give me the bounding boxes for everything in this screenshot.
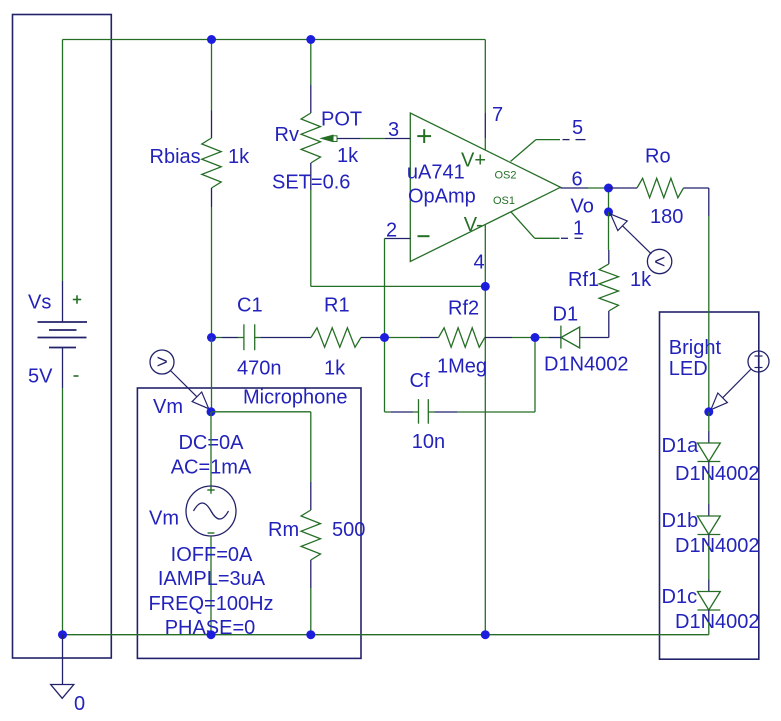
battery Vs bottom lead [62,348,64,389]
wire Rv top [310,40,312,86]
node top rail Rbias dot [207,35,216,44]
wire Cf left [385,338,419,413]
label FREQ=100Hz [148,593,273,615]
label Vs [28,292,51,314]
svg-text:3: 3 [388,119,399,141]
box Microphone [137,388,361,658]
label Rv value 1k [337,145,359,167]
wire Rf1 top [608,212,610,250]
node C1 left dot [207,333,216,342]
label uA741 [407,162,465,184]
svg-text:FREQ=100Hz: FREQ=100Hz [148,593,273,615]
label ground 0 [74,693,85,715]
current source Vm [186,486,236,536]
svg-text:Microphone: Microphone [243,387,348,409]
box Bright LED [660,312,759,659]
node Rv-pin4 dot [481,282,490,291]
label LED [669,358,708,380]
label D1c [662,586,698,608]
resistor Rf2 [385,328,536,347]
label Vm probe [153,396,183,418]
node R1 out dot [380,333,389,342]
label D1 value D1N4002 [544,354,629,376]
svg-text:D1a: D1a [662,435,700,457]
wire Vs bottom [62,388,64,635]
svg-text:0: 0 [74,693,85,715]
label pin 5 [572,117,583,139]
svg-text:5V: 5V [28,366,53,388]
label Ro [645,146,671,168]
svg-text:Vm: Vm [153,396,183,418]
node Rf2-D1 dot [531,333,540,342]
svg-text:1k: 1k [337,145,359,167]
node Vo dot top [604,184,613,193]
svg-text:Rv: Rv [275,124,299,146]
wire Vm source top [210,412,212,486]
battery Vs plates [38,322,88,348]
svg-text:OS2: OS2 [495,170,517,182]
label Vs plus [73,295,81,303]
label Rbias value 1k [228,146,250,168]
wire C1 left [212,337,244,339]
wire Cf right [428,338,535,413]
node bottom mic dot [207,630,216,639]
label C1 value 470n [237,358,282,380]
capacitor Cf [419,399,429,424]
label D1c value D1N4002 [675,611,760,633]
svg-text:2: 2 [386,220,397,242]
label Rf1 [568,269,599,291]
wire pin 7 [484,40,486,151]
svg-text:R1: R1 [324,295,350,317]
resistor Ro [609,178,709,197]
wire pin 2 [385,238,411,240]
svg-text:D1c: D1c [662,586,698,608]
wire mic input [211,338,213,413]
ground 0 [51,635,74,699]
label Vs value 5V [28,366,53,388]
resistor R1 [311,328,385,347]
svg-text:470n: 470n [237,358,282,380]
svg-text:V+: V+ [461,150,486,172]
potentiometer Rv [301,85,320,190]
label Rm [268,519,299,541]
svg-text:Rbias: Rbias [150,146,201,168]
svg-text:D1N4002: D1N4002 [544,354,629,376]
svg-text:1k: 1k [324,358,346,380]
diode D1c [698,546,721,622]
svg-text:>: > [157,352,168,373]
wire Vs top drop [62,40,64,282]
svg-text:POT: POT [321,109,362,131]
svg-text:Cf: Cf [410,370,430,392]
node top rail Rv dot [306,35,315,44]
label Ro value 180 [650,206,683,228]
svg-text:1: 1 [573,217,584,239]
label pin 7 [492,104,503,126]
svg-text:1Meg: 1Meg [437,355,487,377]
resistor Rm [301,412,320,635]
box Vs supply [13,15,112,659]
svg-text:IOFF=0A: IOFF=0A [171,544,253,566]
label pin 4 [474,252,485,274]
svg-text:D1N4002: D1N4002 [675,463,760,485]
label Rf1 value 1k [630,269,652,291]
label R1 value 1k [324,358,346,380]
svg-text:Vo: Vo [571,196,594,218]
resistor Rf1 [599,250,618,338]
svg-text:SET=0.6: SET=0.6 [272,172,350,194]
label AC=1mA [171,456,252,478]
label V+ [461,150,486,172]
svg-text:IAMPL=3uA: IAMPL=3uA [158,568,266,590]
probe current I [711,351,769,410]
svg-text:5: 5 [572,117,583,139]
svg-text:uA741: uA741 [407,162,465,184]
svg-text:D1N4002: D1N4002 [675,611,760,633]
label D1a [662,435,700,457]
svg-text:LED: LED [669,358,708,380]
label SET=0.6 [272,172,350,194]
svg-text:<: < [654,252,665,273]
svg-text:1k: 1k [228,146,250,168]
diode D1a [698,412,721,473]
svg-text:Rm: Rm [268,519,299,541]
label V- [464,214,483,236]
wire Rbias top [211,40,213,111]
svg-text:Rf1: Rf1 [568,269,599,291]
svg-text:10n: 10n [412,431,445,453]
label D1 [553,304,579,326]
svg-text:D1: D1 [553,304,579,326]
label Rbias [150,146,201,168]
svg-text:OS1: OS1 [493,195,515,207]
wire D1c to rail [708,622,710,635]
label IAMPL=3uA [158,568,266,590]
svg-text:D1b: D1b [662,510,699,532]
label Cf value 10n [412,431,445,453]
svg-text:Vm: Vm [149,508,179,530]
wire Rbias bottom [211,207,213,338]
svg-text:V-: V- [464,214,483,236]
wire C1-R1 [255,337,311,339]
svg-text:7: 7 [492,104,503,126]
label Vm source [149,508,179,530]
label OS1 [493,195,515,207]
label pin 6 [572,169,583,191]
wire pin2 to node [384,239,386,338]
label C1 [237,295,263,317]
op-amp U1 triangle [410,113,560,262]
pot Rv wiper arrow [321,135,337,141]
pin 5 stub [511,140,586,162]
label POT [321,109,362,131]
svg-text:OpAmp: OpAmp [408,185,476,207]
node bottom Rm dot [306,630,315,639]
wire top rail [63,39,486,41]
wire Rv bottom [311,190,486,286]
label OS2 [495,170,517,182]
node bottom Vs dot [58,630,67,639]
svg-text:Bright: Bright [669,337,722,359]
svg-text:6: 6 [572,169,583,191]
label Rf2 [448,298,479,320]
label DC=0A [178,432,244,454]
diode D1 [535,326,609,349]
resistor Rbias [202,111,221,208]
node bottom pin4 dot [481,630,490,639]
battery Vs top lead [62,281,64,322]
label Vo [571,196,594,218]
label pin 3 [388,119,399,141]
svg-text:D1N4002: D1N4002 [675,535,760,557]
label Microphone [243,387,348,409]
wire Vo node [608,188,610,212]
label OpAmp [408,185,476,207]
svg-text:180: 180 [650,206,683,228]
label D1b value D1N4002 [675,535,760,557]
svg-text:C1: C1 [237,295,263,317]
svg-text:4: 4 [474,252,485,274]
node mic top dot [207,407,216,416]
probe viewpoint Vo [611,214,672,274]
label Vs minus [74,375,79,377]
label R1 [324,295,350,317]
label Rv [275,124,299,146]
label Cf [410,370,430,392]
node LED top dot [704,407,713,416]
label Rf2 value 1Meg [437,355,487,377]
svg-text:Rf2: Rf2 [448,298,479,320]
svg-text:1k: 1k [630,269,652,291]
wire pin 4 [484,225,486,635]
pin 1 stub [511,212,582,238]
svg-text:Vs: Vs [28,292,51,314]
node Vo dot [604,207,613,216]
wire Vm source bottom [210,536,212,635]
probe viewpoint Vm [150,350,209,409]
wire bottom rail [63,634,709,636]
svg-text:500: 500 [332,519,365,541]
label PHASE=0 [165,617,256,639]
label pin 1 [573,217,584,239]
label pin 2 [386,220,397,242]
capacitor C1 [244,324,255,350]
label Bright [669,337,722,359]
label Rm value 500 [332,519,365,541]
wire Ro to LED [708,188,710,412]
op-amp minus input mark [418,235,430,237]
svg-text:Ro: Ro [645,146,671,168]
label D1a value D1N4002 [675,463,760,485]
wire pin 3 [337,138,410,140]
op-amp plus input mark [417,129,431,143]
diode D1b [698,473,721,546]
label D1b [662,510,699,532]
wire pin 6 output [561,187,609,189]
wire mic node to Rm [211,411,311,413]
label IOFF=0A [171,544,253,566]
